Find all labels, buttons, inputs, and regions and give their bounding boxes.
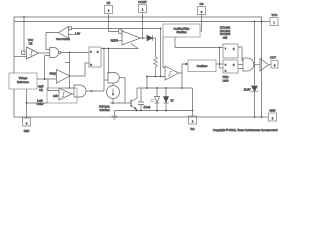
block logic comparator box (47, 88, 77, 103)
wire UVLO lower input (14, 56, 27, 58)
block voltage reference (9, 73, 37, 89)
current source I1 soft start (107, 83, 120, 103)
flip-flop toggle divider (223, 44, 238, 58)
wire G riser (103, 49, 105, 92)
svg-text:R: R (90, 65, 92, 67)
pin OUT 6 (270, 55, 278, 68)
wire EA output (141, 37, 148, 39)
wire NAND third input (45, 55, 50, 57)
pin FB 2 (105, 1, 113, 14)
node divider right (155, 76, 157, 78)
node base join (112, 102, 114, 104)
svg-text:R: R (225, 70, 227, 72)
wire CS sense drop (160, 29, 162, 77)
svg-text:Latch: Latch (223, 79, 230, 82)
wire RC riser (192, 88, 194, 116)
wire PWM out (179, 72, 183, 74)
svg-text:4: 4 (192, 120, 194, 123)
wire REF feed (26, 89, 28, 118)
node G riser top (103, 48, 105, 50)
pin REF 8 (23, 118, 31, 133)
gate U2 NAND fault (50, 48, 61, 58)
node CS sense join (160, 76, 162, 78)
diode D2 ramp (155, 88, 160, 111)
gate U11 soft start AND upper (108, 73, 119, 84)
buffer U7 output driver (260, 59, 269, 72)
svg-text:S: S (225, 64, 227, 66)
svg-text:Soft Start: Soft Start (100, 109, 110, 112)
wire oscillator clock out (216, 63, 223, 65)
svg-text:Q: Q (97, 51, 99, 53)
svg-text:Q: Q (233, 64, 235, 66)
resistor R1 divider (154, 57, 158, 77)
svg-text:VCC: VCC (272, 13, 278, 17)
node REF OK tap (44, 78, 46, 80)
svg-text:Reference: Reference (17, 80, 30, 84)
node ramp rail join (181, 87, 183, 89)
wire comp out (72, 93, 74, 95)
node VCC zener tap (254, 21, 256, 23)
svg-text:GND: GND (269, 108, 275, 112)
wire blanking toggle line (175, 47, 223, 49)
svg-text:REF/2: REF/2 (111, 39, 119, 43)
diode D1 EA clamp (147, 35, 153, 41)
wire FB drop (109, 14, 119, 32)
svg-text:1V: 1V (171, 99, 174, 102)
svg-text:OK: OK (39, 88, 43, 92)
svg-text:0.5V: 0.5V (53, 95, 58, 98)
svg-text:RC: RC (190, 127, 194, 131)
comparator U9 0.5V (53, 88, 72, 100)
op-amp U8 reference buffer (57, 70, 71, 84)
svg-text:REF: REF (38, 85, 44, 89)
wire VCC drop to zener (254, 22, 256, 87)
wire AND to driver (254, 64, 260, 66)
wire over-current out (46, 33, 59, 50)
svg-text:5V(+): 5V(+) (50, 72, 57, 76)
wire toggle out (238, 47, 243, 61)
wire GND stub (262, 116, 269, 118)
node VCC sense tap (23, 16, 25, 18)
svg-text:CS: CS (200, 2, 204, 6)
svg-text:5: 5 (272, 117, 274, 120)
comparator U3 over-current (56, 27, 71, 42)
svg-text:13.5V: 13.5V (244, 87, 251, 91)
svg-text:1.9V: 1.9V (75, 31, 81, 35)
wire VCC rail (14, 21, 270, 23)
comparator U1 VCC OK (22, 38, 39, 59)
node AND G feed (69, 87, 71, 89)
wire enable drop (69, 52, 71, 88)
wire COMP drop (142, 13, 144, 38)
transistor Q1 soft start discharge (131, 88, 137, 111)
op-amp U4 error amplifier (111, 30, 141, 45)
node enable to AND H (108, 48, 110, 50)
node blanked line branch (160, 28, 162, 30)
svg-text:(4 ms): (4 ms) (144, 106, 151, 109)
pin GND 5 (269, 108, 277, 121)
svg-text:T: T (225, 48, 227, 50)
wire REF OK riser (44, 56, 46, 80)
wire NAND out to latch S (61, 51, 89, 53)
node logic power tap (26, 102, 28, 104)
svg-text:Leading Edge: Leading Edge (173, 26, 190, 30)
wire VCC OK out (39, 52, 50, 54)
svg-text:FB: FB (107, 1, 111, 5)
wire latch Q enable (101, 44, 138, 49)
node border gnd (261, 116, 263, 118)
label logic power (37, 100, 44, 107)
wire ramp rail (137, 87, 193, 89)
wire 1.9V stub (69, 34, 75, 36)
pin CS 3 (198, 2, 206, 15)
pin RC 4 (189, 116, 197, 131)
svg-text:6: 6 (274, 65, 276, 68)
node rail junctions (136, 110, 138, 112)
pin COMP 1 (138, 0, 147, 13)
wire zener to ground (254, 92, 256, 118)
arrowhead into oscillator (186, 63, 189, 65)
pin VCC 7 (270, 13, 278, 26)
wire driver to OUT (269, 64, 272, 66)
node enable branch (69, 52, 71, 54)
wire CS blanked line (72, 28, 161, 30)
wire post diode (153, 38, 156, 57)
svg-text:3: 3 (201, 11, 203, 14)
svg-text:VCC: VCC (28, 38, 34, 42)
svg-text:COMP: COMP (138, 0, 147, 4)
svg-text:Voltage: Voltage (19, 76, 28, 80)
flip-flop PWM latch (223, 60, 238, 73)
svg-text:OUT: OUT (270, 55, 276, 59)
wire LEB drop to PWM (163, 37, 165, 68)
node COMP junction (142, 37, 144, 39)
diode D3 clamp 1V (164, 88, 174, 111)
svg-text:Copyright © 2016, Texas Instru: Copyright © 2016, Texas Instruments Inco… (213, 128, 278, 132)
flip-flop fault latch (89, 47, 101, 67)
ground (112, 111, 118, 120)
wire enable stub (65, 62, 70, 64)
label UCC variants (220, 27, 231, 40)
diode Z1 zener 13.5V (244, 86, 259, 92)
wire VCC sense drop (23, 17, 25, 51)
wire divider ground leg (146, 77, 148, 89)
wire AND G top input (62, 87, 74, 89)
wire logic power (27, 102, 48, 104)
label REF OK (38, 85, 44, 93)
node clock branch (219, 63, 221, 65)
block leading edge blanking (163, 24, 200, 37)
node G branch (91, 90, 93, 92)
wire oscillator ramp (182, 64, 187, 88)
wire reference 5V out (37, 78, 57, 80)
IC border (14, 17, 262, 117)
svg-text:7: 7 (273, 22, 275, 25)
wire AND G out (86, 90, 104, 92)
svg-text:8: 8 (26, 122, 28, 125)
wire LEB drop to toggle line (174, 37, 176, 48)
wire latch Q out (238, 64, 243, 66)
wire base (110, 102, 131, 104)
node zener gnd (254, 116, 256, 118)
node clock join (219, 47, 221, 49)
gate U10 soft start AND lower (74, 85, 86, 97)
wire logic drop (48, 79, 59, 91)
label ramp diode mark (151, 100, 154, 102)
node rail taps (146, 87, 148, 89)
gate U6 output AND (243, 58, 254, 71)
wire enable drop to AND H (108, 49, 110, 75)
wire AND H out to discharge (119, 78, 125, 103)
capacitor C1 soft start (138, 88, 144, 111)
svg-text:1: 1 (142, 9, 144, 12)
label full cycle soft start (99, 105, 110, 112)
node VCC border tap (261, 21, 263, 23)
wire clock riser (219, 48, 221, 69)
wire buffer out to latch reset (70, 63, 89, 76)
wire internal ground rail (115, 110, 193, 112)
svg-text:REF: REF (24, 129, 30, 133)
svg-text:Oscillator: Oscillator (197, 64, 208, 68)
svg-text:Blanking: Blanking (177, 30, 188, 34)
svg-text:S: S (90, 51, 92, 53)
node divider left (146, 76, 148, 78)
wire CS drop (200, 15, 202, 31)
svg-text:2: 2 (108, 10, 110, 13)
svg-text:Over-Current: Over-Current (56, 38, 70, 41)
label PWM latch (223, 76, 230, 82)
comparator U5 PWM (165, 66, 179, 80)
wire latch lower out (238, 68, 243, 70)
wire AND H lower input (104, 79, 108, 81)
svg-text:only: only (223, 36, 228, 39)
svg-text:Q: Q (233, 48, 235, 50)
wire PWM lower feed (147, 76, 165, 78)
svg-text:OK: OK (29, 42, 33, 46)
svg-text:Power: Power (37, 103, 44, 106)
block oscillator (188, 60, 216, 72)
wire latch R feed (220, 67, 224, 69)
